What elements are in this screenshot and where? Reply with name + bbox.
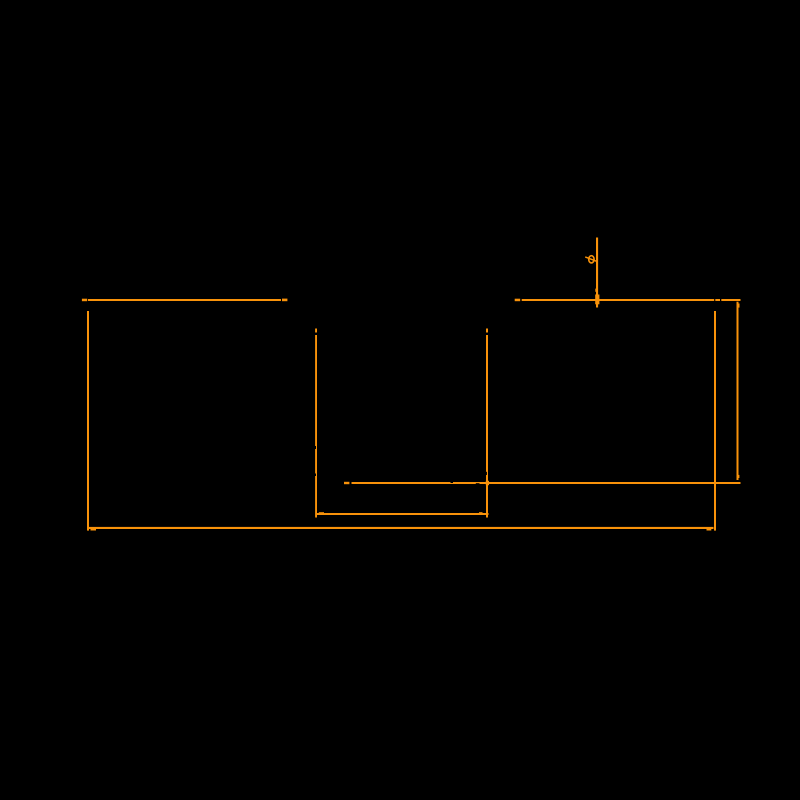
arrow nub top of x=737.5 vertical (738, 304, 739, 308)
dimension line top-right end segment (721, 299, 740, 301)
nick on slot right vertical at y=473 (486, 472, 487, 475)
dimension extension vertical x=737.5 (737, 302, 739, 480)
diameter symbol ring (589, 256, 594, 263)
nick on y=483 line at x=451 (451, 482, 454, 483)
diameter dimension arrow nub (595, 289, 598, 292)
extension line left vertical x=88 (87, 311, 89, 531)
slot left vertical line x=316 (315, 335, 317, 518)
middle dimension line y=483 (352, 482, 741, 484)
extension line right vertical x=715 (714, 311, 716, 531)
bottom dimension left arrow tick (91, 529, 97, 531)
dimension line y=514 between slot walls (316, 513, 489, 515)
bottom dimension line y=528 (87, 527, 714, 529)
slot left vertical top dash (315, 329, 317, 333)
dimension line top-left segment (88, 299, 281, 301)
arrow nub bottom of x=737.5 vertical (738, 475, 739, 478)
nick on slot left vertical at y=447 (315, 446, 316, 449)
dimension line top-right short dash at x=715 (715, 299, 720, 301)
dimension line top-left, right arrow tick (282, 299, 287, 302)
bottom dimension right arrow tick (707, 529, 712, 531)
nick on slot left vertical at y=474 (315, 474, 316, 477)
dimension line top-right, left arrow tick (515, 299, 521, 302)
middle dimension line y=483 left arrow tick (344, 482, 349, 484)
diameter dimension leader vertical line (596, 238, 598, 308)
slot right vertical top dash (486, 329, 488, 333)
arrow cross blob at (487,483) (486, 481, 489, 485)
dimension line top-right segment (522, 299, 715, 301)
diameter dimension arrowhead at y=300 (595, 295, 599, 305)
y=514 dimension right arrow nub (479, 512, 483, 514)
diameter symbol slash (585, 257, 596, 261)
nick on y=483 line at x=477 (476, 483, 480, 484)
dimension line top-left, left arrow tick (82, 299, 87, 302)
y=514 dimension left arrow nub (319, 512, 324, 514)
slot right vertical line x=487 (486, 335, 488, 518)
